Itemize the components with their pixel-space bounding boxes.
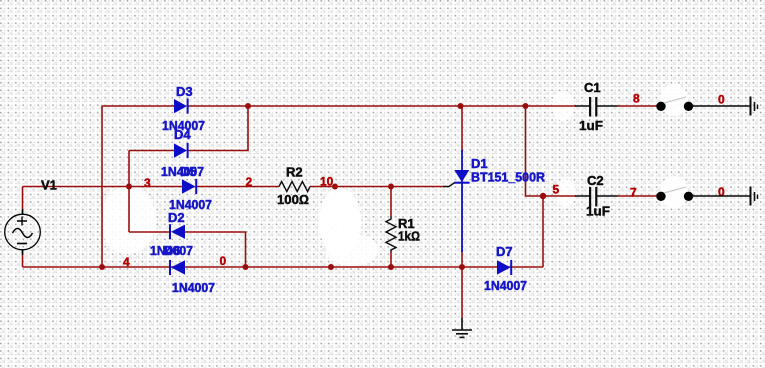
diode D3 [174, 99, 188, 114]
svg-text:1uF: 1uF [586, 204, 610, 219]
svg-text:D3: D3 [176, 84, 193, 99]
svg-text:D7: D7 [496, 244, 513, 259]
junction bottom rail x330 [328, 264, 334, 270]
white smudge left of C2 [556, 179, 576, 207]
junction bottom rail D2 [243, 264, 249, 270]
wire top rail D3 to C1 [188, 105, 577, 107]
svg-text:2: 2 [246, 175, 253, 189]
junction node 3 row [126, 184, 132, 190]
svg-text:5: 5 [553, 183, 560, 197]
white smudge left of bridge [100, 186, 156, 254]
wire main row D5 to R2 [196, 186, 279, 188]
svg-text:1N4007: 1N4007 [484, 278, 527, 293]
ground symbol [452, 318, 472, 337]
svg-text:BT151_500R: BT151_500R [471, 170, 546, 185]
wire R1 branch bottom [390, 252, 392, 267]
svg-text:D4: D4 [174, 127, 191, 142]
wire C2 row to switch [617, 195, 657, 197]
wire SCR cathode vertical [461, 250, 463, 267]
wire V1 bottom vertical [22, 250, 24, 267]
svg-text:D6: D6 [164, 243, 181, 258]
capacitor C2 [575, 187, 618, 207]
diode D6 [170, 260, 185, 275]
wire x543 vertical [542, 196, 544, 267]
wire main row V1 to D5 [23, 186, 183, 188]
wire D4 branch left [129, 150, 174, 152]
wire SCR to ground vertical [461, 267, 463, 318]
resistor R2 [279, 182, 310, 192]
wire x525 vertical + corner to node5 [526, 106, 544, 196]
svg-text:1uF: 1uF [579, 118, 603, 133]
diode D7 [497, 260, 511, 275]
resistor R1 [386, 216, 396, 252]
white smudge near R1 (cursor artifact) [319, 188, 361, 256]
right ground symbol bottom [692, 187, 758, 206]
svg-text:1kΩ: 1kΩ [398, 229, 420, 244]
svg-text:0: 0 [220, 254, 227, 268]
junction R1 top [388, 184, 394, 190]
svg-text:0: 0 [718, 93, 725, 107]
wire top rail [102, 105, 174, 107]
junction node 5 [540, 193, 546, 199]
AC source V1 [5, 210, 41, 255]
white smudge at switch 1 [660, 84, 688, 116]
wire R1 branch top [390, 187, 392, 217]
white smudge at switch 2 [660, 176, 688, 208]
wire SCR anode vertical [461, 106, 463, 152]
svg-text:8: 8 [633, 92, 640, 106]
svg-text:10: 10 [320, 175, 334, 189]
switch 1 contact dots [656, 102, 693, 111]
wire D2 branch left [129, 231, 170, 233]
svg-text:V1: V1 [41, 178, 57, 193]
junction top rail D4 [245, 103, 251, 109]
wire top rail C1 to switch [617, 105, 657, 107]
wire D2 branch right + down [185, 232, 246, 267]
svg-text:R2: R2 [286, 165, 303, 180]
wire C2 row left [543, 195, 576, 197]
wire D4 branch right + up [188, 106, 249, 151]
right ground symbol top [692, 97, 758, 116]
svg-text:C2: C2 [587, 173, 604, 188]
svg-text:1N4007: 1N4007 [172, 280, 215, 295]
svg-text:4: 4 [123, 255, 130, 269]
wire main row R2 to SCR gate [310, 186, 444, 188]
svg-text:D5: D5 [180, 164, 197, 179]
diode D2 [170, 224, 185, 239]
switch 1 lever [664, 97, 686, 103]
svg-text:3: 3 [144, 176, 151, 190]
junction bottom rail left [99, 264, 105, 270]
wire V1 top vertical [22, 187, 24, 215]
junction R1 bottom [388, 264, 394, 270]
diode D5 [182, 179, 196, 194]
svg-text:0: 0 [718, 185, 725, 199]
switch 2 lever [664, 187, 686, 193]
wire left vertical x=102 [101, 106, 103, 268]
capacitor C1 [575, 97, 618, 117]
junction top rail SCR anode [458, 103, 464, 109]
diode D4 [174, 143, 188, 158]
wire x129 vertical [128, 151, 130, 233]
switch 2 contact dots [656, 192, 693, 201]
white smudge left of C1 [552, 91, 574, 121]
junction top rail x525 [523, 103, 529, 109]
svg-text:7: 7 [630, 186, 637, 200]
wire bottom rail [23, 266, 544, 268]
svg-text:100Ω: 100Ω [277, 192, 309, 207]
junction SCR cathode rail [459, 264, 465, 270]
junction node 10 [332, 184, 338, 190]
svg-text:D2: D2 [168, 210, 185, 225]
SCR D1 [443, 150, 470, 252]
svg-text:C1: C1 [584, 80, 601, 95]
